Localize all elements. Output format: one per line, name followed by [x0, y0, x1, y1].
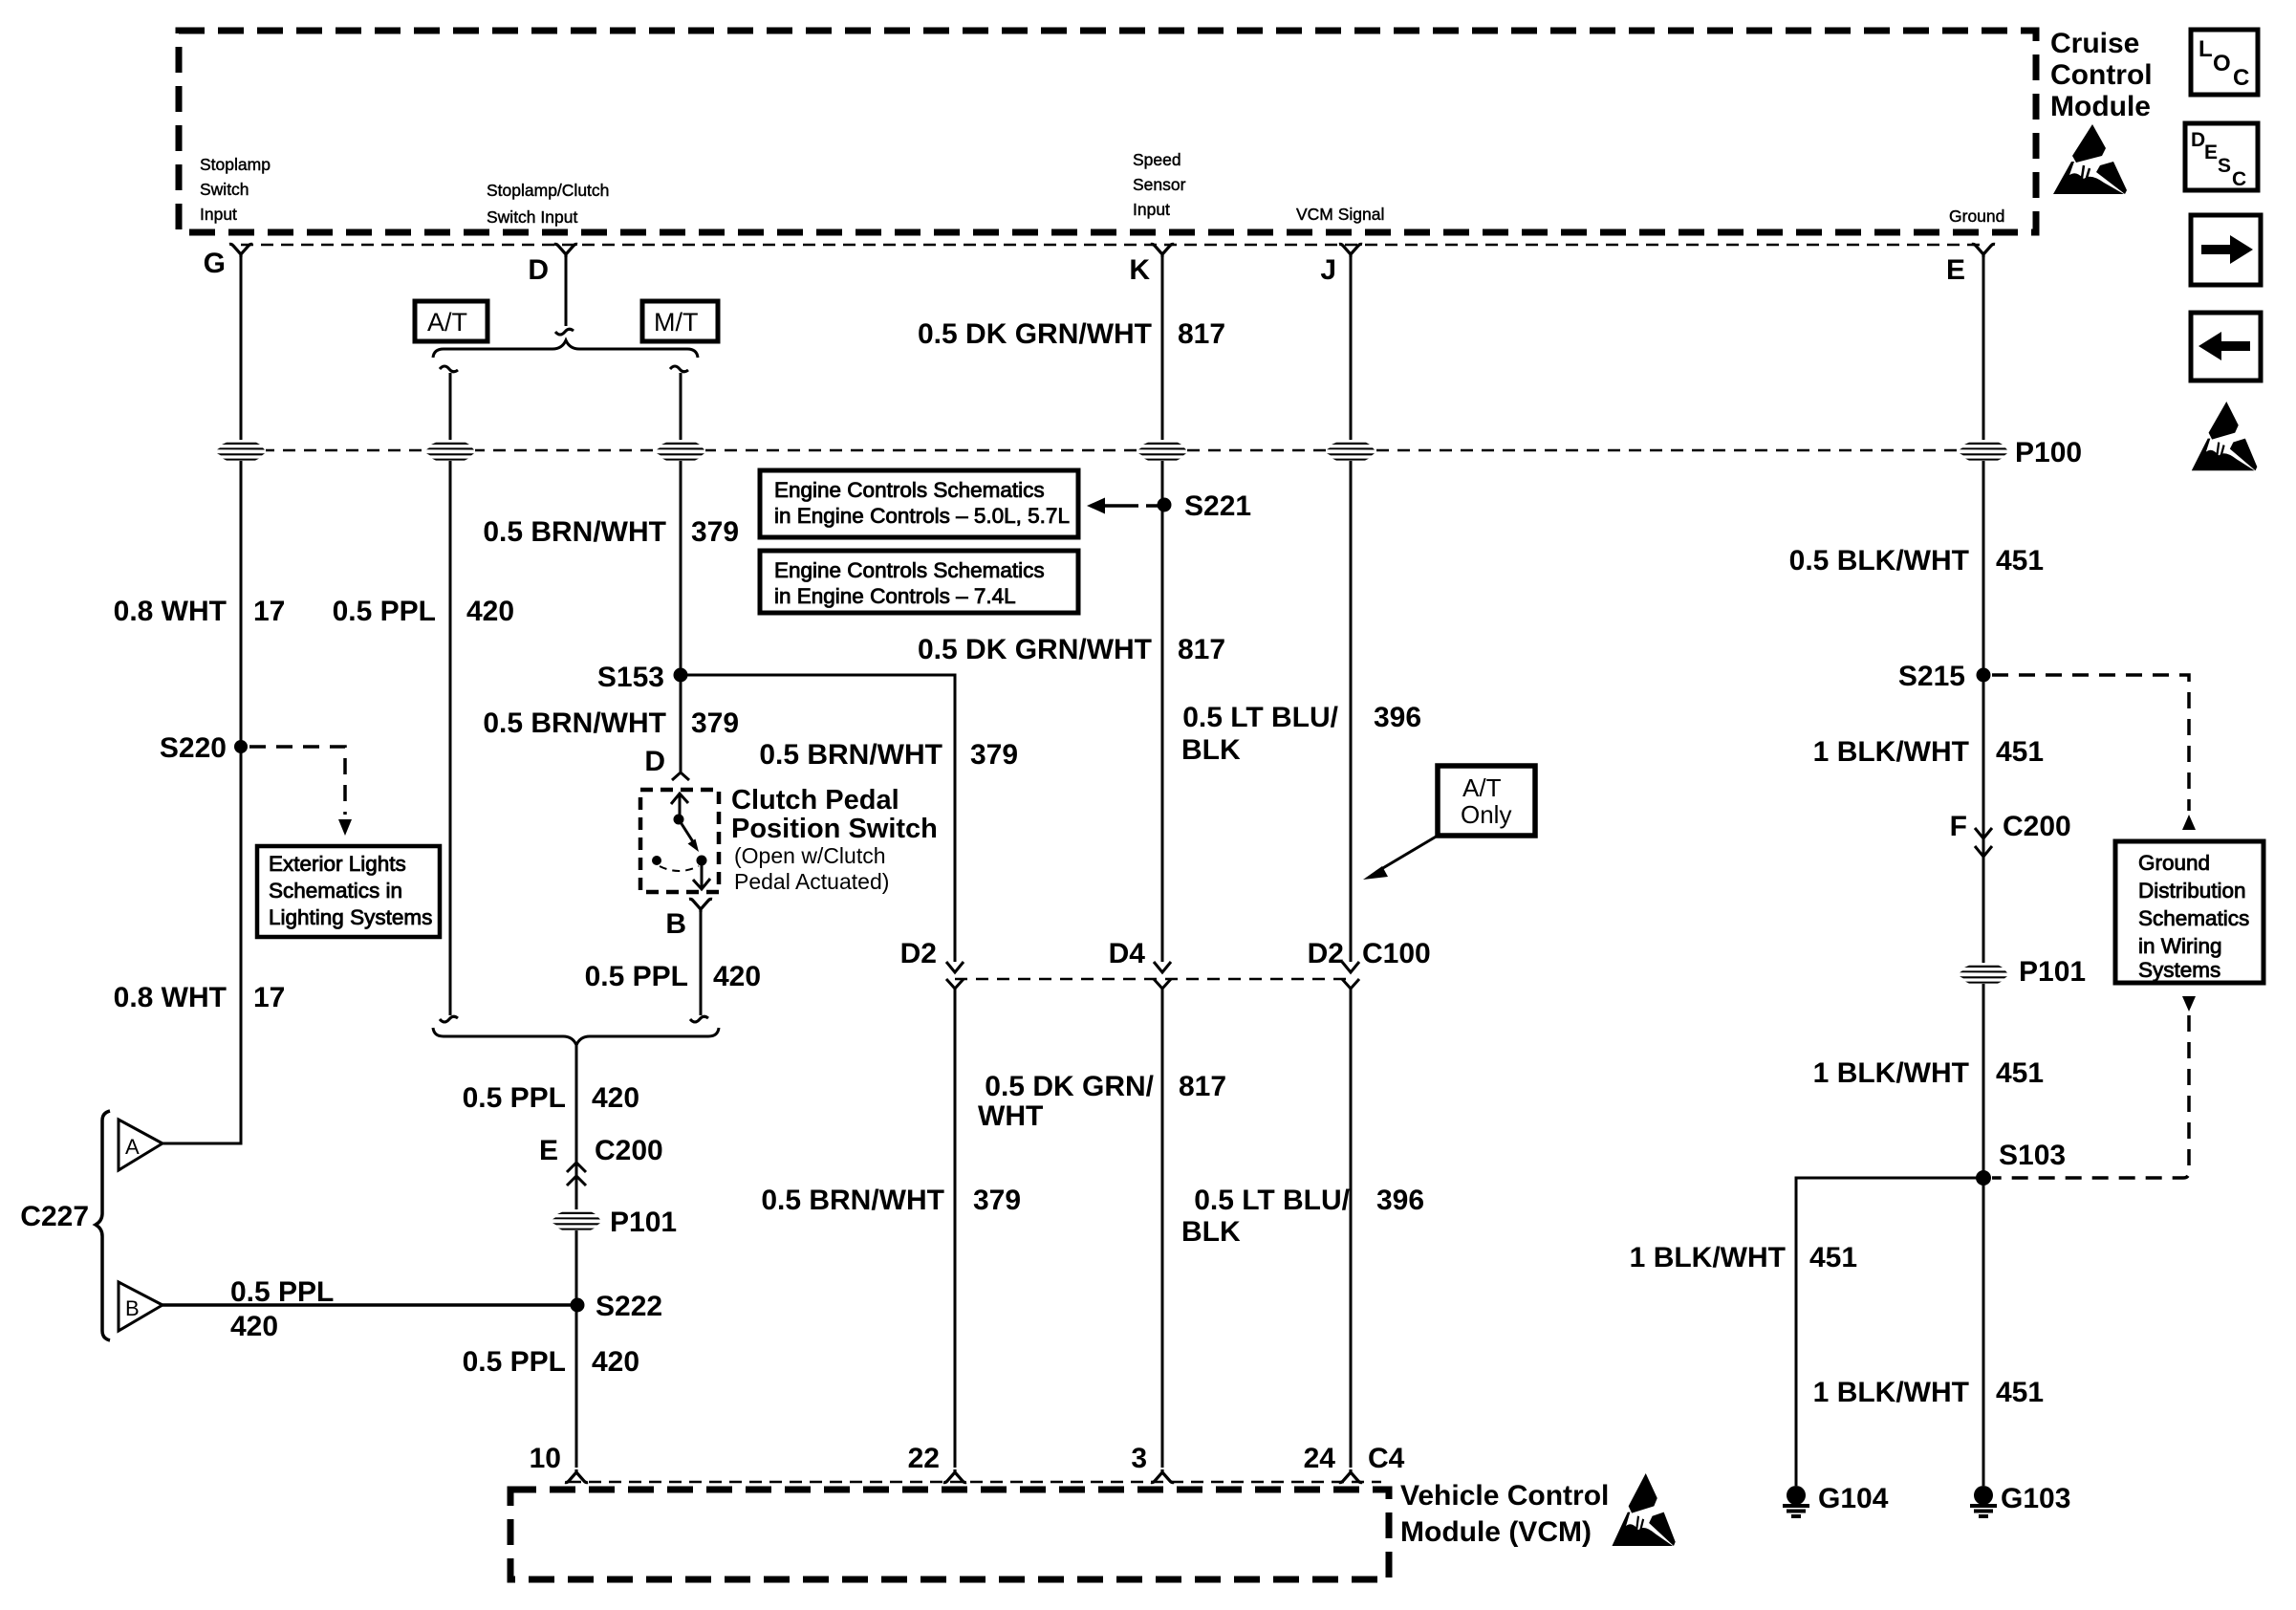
svg-text:22: 22 [908, 1443, 940, 1474]
svg-text:0.5 PPL: 0.5 PPL [463, 1082, 566, 1114]
A/T Only box [1438, 766, 1535, 836]
switch top terminal arrow [671, 794, 688, 819]
svg-text:0.5 PPL: 0.5 PPL [463, 1346, 566, 1378]
svg-text:451: 451 [1996, 736, 2044, 768]
svg-text:817: 817 [1178, 318, 1225, 350]
svg-text:1 BLK/WHT: 1 BLK/WHT [1813, 736, 1969, 768]
wire label 1 BLK/WHT 451 (middle) [1813, 1057, 2044, 1089]
wire label 0.5 DK GRN/ WHT 817 [978, 1071, 1226, 1132]
wire label 0.5 PPL 420 (merged upper) [463, 1082, 639, 1114]
wire A/T vertical [449, 373, 452, 1015]
connector P100 lens on M/T [656, 440, 705, 461]
wire label 1 BLK/WHT 451 (lower E) [1813, 1377, 2044, 1408]
label Cruise Control Module [2050, 28, 2153, 122]
switch pivot dot [674, 815, 684, 825]
Engine Controls Schematics 5.0L box [760, 470, 1078, 537]
dashed reference S215 to ground box [1992, 675, 2196, 830]
wire label 0.5 BRN/WHT 379 (above S153) [483, 516, 739, 548]
svg-text:Stoplamp: Stoplamp [200, 155, 271, 174]
DESC icon box [2185, 123, 2258, 190]
svg-text:VCM Signal: VCM Signal [1296, 205, 1384, 224]
pin D fork [554, 244, 577, 257]
svg-text:Speed: Speed [1133, 150, 1181, 169]
wire label 0.5 LT BLU/BLK 396 (upper) [1181, 702, 1421, 766]
node S215 [1898, 661, 1991, 692]
ESD symbol right column [2192, 402, 2258, 470]
label Stoplamp Switch Input [200, 155, 271, 224]
wire label 0.5 BRN/WHT 379 (lower) [761, 1185, 1021, 1216]
svg-text:E: E [1946, 254, 1965, 286]
switch dashed travel arc [660, 866, 699, 871]
switch bottom exit arrow [693, 865, 710, 889]
wire label 0.5 BLK/WHT 451 [1789, 545, 2044, 577]
A/T option box [415, 301, 487, 341]
node S103 [1976, 1140, 2066, 1186]
svg-text:0.5 PPL: 0.5 PPL [230, 1276, 334, 1308]
svg-text:0.5 BRN/WHT: 0.5 BRN/WHT [759, 739, 942, 771]
pin E fork [1972, 244, 1995, 257]
svg-text:C227: C227 [20, 1201, 89, 1232]
svg-text:S221: S221 [1184, 490, 1251, 522]
svg-text:420: 420 [592, 1346, 639, 1378]
wire B hook bottom [690, 1016, 708, 1022]
svg-text:A: A [125, 1135, 140, 1159]
lower merge brace [433, 1028, 719, 1045]
svg-text:0.5 DK GRN/WHT: 0.5 DK GRN/WHT [918, 318, 1152, 350]
pin 22 fork [943, 1469, 966, 1483]
svg-text:A/T: A/T [427, 308, 467, 337]
wire label 0.5 BRN/WHT 379 (below S153) [483, 707, 739, 739]
pin 24 fork [1339, 1469, 1362, 1483]
svg-text:S153: S153 [597, 662, 664, 693]
wire E vertical [1982, 256, 1985, 1486]
connector P101 lens (merged wire) [552, 1207, 677, 1238]
pin 3 fork [1151, 1469, 1174, 1483]
svg-text:420: 420 [713, 961, 761, 992]
Exterior Lights Schematics box [257, 846, 440, 937]
wire K lower to pin 3 [1161, 989, 1164, 1468]
switch blade with arrowhead [679, 819, 699, 852]
wire G vertical [162, 256, 241, 1143]
svg-text:WHT: WHT [978, 1100, 1043, 1132]
ground G103 [1970, 1483, 2070, 1516]
svg-text:C: C [2232, 168, 2246, 190]
svg-text:M/T: M/T [654, 308, 699, 337]
LOC icon box [2191, 30, 2258, 95]
connector row dashed line (cruise module pins) [241, 244, 1983, 247]
svg-text:E: E [539, 1135, 558, 1166]
arrow from S221 to engine box [1087, 498, 1158, 514]
svg-text:0.5 DK GRN/WHT: 0.5 DK GRN/WHT [918, 634, 1152, 665]
svg-text:Switch: Switch [200, 180, 249, 199]
arrow from A/T Only box to wire J [1363, 836, 1438, 880]
svg-text:D: D [644, 746, 665, 777]
connector F C200 label [1950, 811, 2071, 842]
connector C227 brace [20, 1111, 110, 1340]
svg-text:E: E [2204, 141, 2218, 163]
svg-text:24: 24 [1304, 1443, 1336, 1474]
connector P101 lens on E wire [1959, 956, 2086, 988]
svg-text:G: G [204, 248, 226, 279]
svg-text:P101: P101 [2019, 956, 2086, 988]
svg-text:420: 420 [592, 1082, 639, 1114]
svg-text:D4: D4 [1109, 938, 1146, 969]
ESD symbol at cruise module [2053, 124, 2127, 194]
wire label 0.5 DK GRN/WHT 817 (top) [918, 318, 1225, 350]
wire S153 branch to D2 [681, 675, 955, 962]
svg-text:451: 451 [1996, 1377, 2044, 1408]
label Clutch Pedal Position Switch [731, 785, 938, 894]
svg-text:396: 396 [1374, 702, 1421, 733]
svg-text:Ground: Ground [1949, 207, 2004, 226]
svg-text:C200: C200 [595, 1135, 663, 1166]
connector P100 lens on A/T [425, 440, 475, 461]
svg-text:Sensor: Sensor [1133, 175, 1186, 194]
node S153 [597, 662, 688, 693]
svg-text:Cruise: Cruise [2050, 28, 2139, 59]
svg-text:B: B [665, 908, 686, 940]
label Speed Sensor Input [1133, 150, 1186, 219]
wire M/T vertical upper [680, 373, 682, 772]
node S222 [571, 1291, 663, 1322]
svg-text:B: B [125, 1296, 140, 1320]
svg-text:Exterior Lights: Exterior Lights [269, 852, 406, 876]
wire M/T hook top [670, 366, 688, 372]
connector C200 chevrons on E wire [1975, 828, 1992, 857]
connector C200 chevrons [567, 1163, 586, 1186]
label Stoplamp/Clutch Switch Input [487, 181, 609, 227]
upper option brace [433, 340, 698, 358]
svg-text:10: 10 [530, 1443, 561, 1474]
vehicle control module box [510, 1490, 1389, 1579]
wire J lower to pin 24 [1350, 989, 1353, 1468]
cruise control module box [179, 31, 2036, 232]
svg-text:0.5 PPL: 0.5 PPL [585, 961, 688, 992]
svg-text:0.5 BRN/WHT: 0.5 BRN/WHT [761, 1185, 944, 1216]
svg-text:D2: D2 [900, 938, 937, 969]
connector P100 lens on G [216, 440, 266, 461]
wire J vertical upper [1350, 256, 1353, 962]
terminal A triangle [119, 1120, 162, 1170]
VCM connector row dashed line [569, 1481, 1381, 1484]
svg-text:A/T: A/T [1462, 773, 1502, 802]
wire label 0.8 WHT 17 upper [114, 596, 286, 627]
wire label 0.8 WHT 17 lower [114, 982, 286, 1013]
svg-text:P101: P101 [610, 1207, 677, 1238]
wire label 1 BLK/WHT 451 (upper) [1813, 736, 2044, 768]
wire label 0.5 BRN/WHT 379 (branch) [759, 739, 1018, 771]
svg-text:P100: P100 [2015, 437, 2082, 468]
wire label 0.5 PPL 420 (B wire, two lines) [230, 1276, 334, 1342]
wire merged vertical to pin 10 [575, 1044, 578, 1468]
clutch pedal position switch dashed box [640, 790, 719, 892]
pin D2 arrows at C100 (J wire) [1342, 962, 1359, 989]
svg-text:379: 379 [691, 516, 739, 548]
svg-text:Control: Control [2050, 59, 2153, 91]
svg-text:420: 420 [466, 596, 514, 627]
svg-text:817: 817 [1178, 634, 1225, 665]
pin J fork [1339, 244, 1362, 257]
svg-text:Engine Controls Schematics: Engine Controls Schematics [774, 478, 1045, 502]
svg-text:Schematics: Schematics [2138, 906, 2249, 930]
node S221 [1158, 490, 1252, 522]
pin B fork [689, 899, 712, 912]
svg-text:S: S [2218, 155, 2231, 177]
svg-text:451: 451 [1996, 545, 2044, 577]
svg-text:Lighting Systems: Lighting Systems [269, 905, 432, 929]
dashed reference ground box to S103 [1992, 996, 2196, 1178]
svg-text:0.5 LT BLU/: 0.5 LT BLU/ [1182, 702, 1338, 733]
pin G fork [229, 244, 252, 257]
svg-text:Stoplamp/Clutch: Stoplamp/Clutch [487, 181, 609, 200]
ESD symbol at VCM [1612, 1473, 1675, 1546]
wire label 0.5 PPL 420 (B side) [585, 961, 761, 992]
svg-text:0.8 WHT: 0.8 WHT [114, 982, 227, 1013]
svg-text:G104: G104 [1818, 1483, 1889, 1514]
svg-text:S222: S222 [596, 1291, 662, 1322]
svg-text:Only: Only [1461, 800, 1511, 829]
svg-text:G103: G103 [2001, 1483, 2070, 1514]
svg-text:D: D [2191, 129, 2205, 151]
svg-text:C: C [2233, 65, 2249, 91]
svg-text:Clutch Pedal: Clutch Pedal [731, 785, 899, 816]
svg-text:0.5 DK GRN/: 0.5 DK GRN/ [985, 1071, 1154, 1102]
svg-text:3: 3 [1131, 1443, 1147, 1474]
svg-text:Input: Input [200, 205, 237, 224]
svg-text:0.5 BRN/WHT: 0.5 BRN/WHT [483, 707, 666, 739]
svg-text:J: J [1320, 254, 1336, 286]
svg-text:in Engine Controls – 7.4L: in Engine Controls – 7.4L [774, 584, 1016, 608]
svg-text:in Engine Controls – 5.0L, 5.7: in Engine Controls – 5.0L, 5.7L [774, 504, 1070, 528]
svg-text:0.5 BLK/WHT: 0.5 BLK/WHT [1789, 545, 1969, 577]
ground G104 [1783, 1483, 1889, 1516]
svg-text:Input: Input [1133, 200, 1170, 219]
svg-text:K: K [1129, 254, 1150, 286]
svg-text:396: 396 [1376, 1185, 1424, 1216]
svg-text:L: L [2199, 36, 2213, 62]
M/T option box [642, 301, 718, 341]
svg-text:0.5 PPL: 0.5 PPL [333, 596, 436, 627]
pin 10 fork [565, 1469, 588, 1483]
svg-text:C4: C4 [1368, 1443, 1405, 1474]
svg-text:D2: D2 [1308, 938, 1344, 969]
switch contact left dot [652, 856, 661, 865]
wire K vertical upper [1161, 256, 1164, 962]
Engine Controls Schematics 7.4L box [760, 551, 1078, 613]
svg-text:O: O [2213, 51, 2231, 76]
wire D stub from pin to brace [565, 256, 568, 326]
svg-text:D: D [528, 254, 549, 286]
wire label 0.5 LT BLU/BLK 396 (lower) [1181, 1185, 1424, 1248]
connector P100 row dashed line [241, 449, 1983, 452]
wire B vertical [700, 911, 703, 1015]
Ground Distribution Schematics box [2115, 841, 2264, 983]
svg-text:(Open w/Clutch: (Open w/Clutch [734, 843, 886, 868]
switch contact right dot [697, 856, 707, 866]
connector E C200 label [539, 1135, 663, 1166]
svg-text:379: 379 [970, 739, 1018, 771]
wire D2 lower to pin 22 [954, 989, 957, 1468]
svg-text:451: 451 [1809, 1242, 1857, 1273]
wire break chevron at switch D [672, 772, 689, 780]
svg-text:Module: Module [2050, 91, 2151, 122]
svg-text:Pedal Actuated): Pedal Actuated) [734, 869, 889, 894]
wire from B to S222 [162, 1303, 576, 1307]
dashed reference from S220 [249, 747, 352, 836]
svg-text:420: 420 [230, 1311, 278, 1342]
svg-text:Switch Input: Switch Input [487, 207, 577, 227]
pin D4 arrows at C100 [1154, 962, 1171, 989]
svg-text:F: F [1950, 811, 1967, 842]
wire branch S103 to G104 [1796, 1178, 1983, 1486]
terminal B triangle [119, 1282, 162, 1331]
svg-text:17: 17 [253, 596, 285, 627]
svg-text:0.8 WHT: 0.8 WHT [114, 596, 227, 627]
connector P100 lens on K [1137, 440, 1187, 461]
svg-text:17: 17 [253, 982, 285, 1013]
svg-text:Systems: Systems [2138, 958, 2220, 982]
svg-text:Vehicle Control: Vehicle Control [1400, 1480, 1609, 1512]
svg-text:BLK: BLK [1181, 734, 1241, 766]
svg-text:C200: C200 [2003, 811, 2071, 842]
svg-text:Engine Controls Schematics: Engine Controls Schematics [774, 558, 1045, 582]
svg-text:BLK: BLK [1181, 1216, 1241, 1248]
svg-text:S215: S215 [1898, 661, 1965, 692]
C100 dashed line [955, 978, 1351, 981]
wire A/T hook top [440, 366, 458, 372]
svg-text:0.5 BRN/WHT: 0.5 BRN/WHT [483, 516, 666, 548]
svg-text:Schematics in: Schematics in [269, 879, 402, 903]
pin K fork [1151, 244, 1174, 257]
svg-text:Module (VCM): Module (VCM) [1400, 1516, 1592, 1548]
left arrow icon box [2191, 313, 2261, 381]
wire label 0.5 PPL 420 (merged lower) [463, 1346, 639, 1378]
svg-text:Ground: Ground [2138, 851, 2210, 875]
connector P100 lens on J [1326, 440, 1375, 461]
svg-text:Position Switch: Position Switch [731, 814, 938, 844]
svg-text:Distribution: Distribution [2138, 879, 2246, 903]
right arrow icon box [2191, 215, 2261, 285]
svg-text:1 BLK/WHT: 1 BLK/WHT [1813, 1057, 1969, 1089]
svg-text:379: 379 [691, 707, 739, 739]
svg-text:1 BLK/WHT: 1 BLK/WHT [1630, 1242, 1786, 1273]
svg-text:in Wiring: in Wiring [2138, 934, 2222, 958]
wire label 1 BLK/WHT 451 (G104 branch) [1630, 1242, 1857, 1273]
svg-text:0.5 LT BLU/: 0.5 LT BLU/ [1194, 1185, 1350, 1216]
svg-text:379: 379 [973, 1185, 1021, 1216]
label Vehicle Control Module (VCM) [1400, 1480, 1609, 1548]
svg-text:1 BLK/WHT: 1 BLK/WHT [1813, 1377, 1969, 1408]
svg-text:S103: S103 [1999, 1140, 2066, 1171]
svg-text:C100: C100 [1362, 938, 1431, 969]
wire label 0.5 PPL 420 (A/T wire) [333, 596, 514, 627]
connector C100 row: arrows into dashed line [946, 962, 964, 989]
node S220 [160, 732, 248, 764]
wire A/T hook bottom [440, 1016, 458, 1022]
wire label 0.5 DK GRN/WHT 817 (below S221) [918, 634, 1225, 665]
svg-text:S220: S220 [160, 732, 227, 764]
connector P100 lens on E [1959, 437, 2082, 468]
svg-text:451: 451 [1996, 1057, 2044, 1089]
svg-text:817: 817 [1179, 1071, 1226, 1102]
